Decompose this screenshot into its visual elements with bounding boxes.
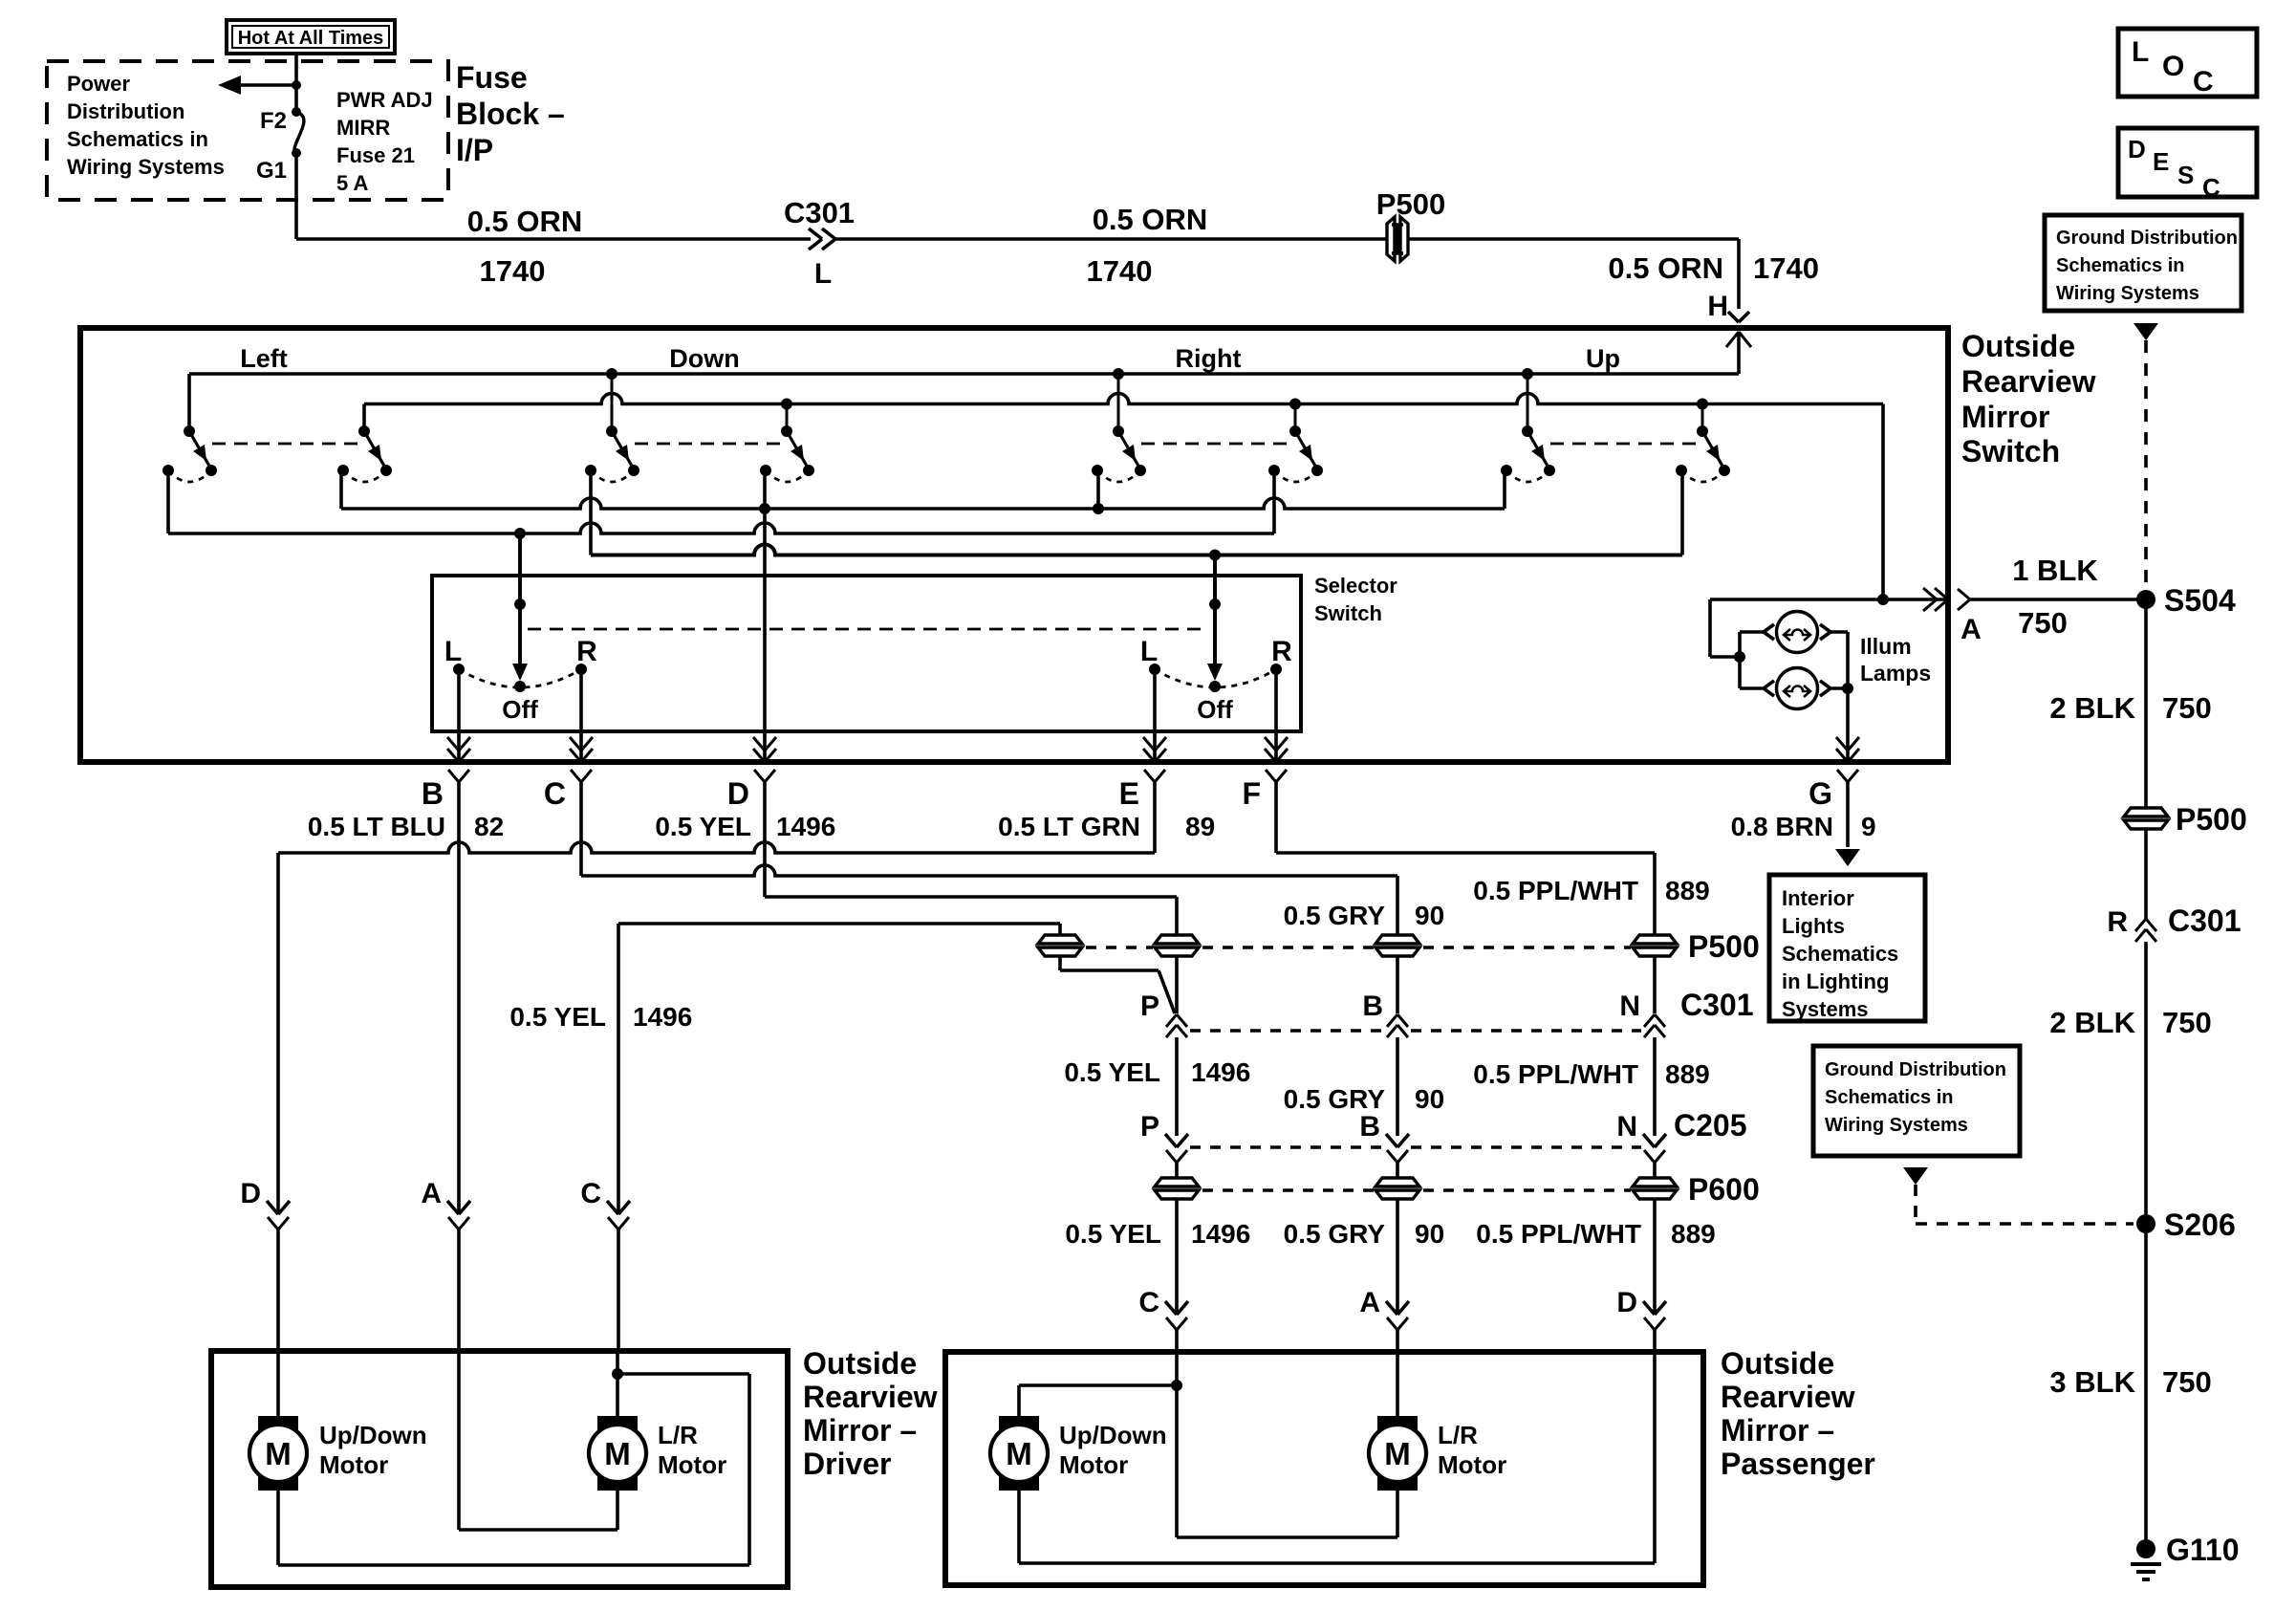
svg-text:82: 82 (474, 812, 504, 841)
wire up/down motor return to pin D (1019, 1352, 1655, 1563)
text Fuse Block - I/P (456, 60, 565, 167)
svg-text:G110: G110 (2166, 1533, 2240, 1567)
svg-text:Outside: Outside (1961, 329, 2075, 363)
svg-text:D: D (2128, 135, 2146, 163)
driver mirror pin C connector (607, 1201, 630, 1351)
wire pin C into passenger mirror (1175, 1352, 1179, 1385)
bus wire Left/Down/Right/Up top (189, 374, 1739, 431)
dashed connector line C301 (1190, 1029, 1641, 1033)
svg-text:Off: Off (502, 695, 538, 724)
wire 0.5 YEL branch to driver mirror (618, 924, 1060, 1214)
reference box Ground Distribution Schematics in Wiring Systems (2045, 215, 2242, 311)
wire 0.5 PPL/WHT 889 to C205 (1653, 1037, 1657, 1136)
driver mirror pin D connector (267, 1201, 290, 1351)
svg-text:P: P (1140, 1111, 1159, 1143)
node splice S206 (2136, 1214, 2155, 1233)
connector C301 pin P (1166, 1014, 1177, 1027)
component box Selector Switch (432, 576, 1301, 731)
illum lamp 2 (1740, 668, 1848, 709)
motor passenger L/R (1377, 1416, 1418, 1491)
wire branch to up/down motor (1019, 1385, 1177, 1417)
connector P500 grommet on ground rail (2124, 808, 2168, 816)
svg-text:Distribution: Distribution (67, 99, 184, 123)
svg-text:Mirror –: Mirror – (803, 1413, 917, 1448)
svg-text:Motor: Motor (1438, 1450, 1506, 1479)
node left selector pivot (514, 599, 526, 610)
wire pin D down (763, 782, 767, 897)
node B3 junction to right selector (1209, 550, 1221, 561)
text Outside Rearview Mirror Driver (803, 1346, 938, 1481)
motor driver L/R (597, 1416, 638, 1491)
wire Down1 contact to bus B3 (589, 470, 593, 555)
wire P500 to C301 pin B (1396, 957, 1399, 1013)
svg-text:A: A (1359, 1287, 1380, 1318)
svg-text:750: 750 (2162, 1365, 2212, 1399)
svg-text:Ground Distribution: Ground Distribution (1825, 1059, 2006, 1080)
wire 2 BLK 750 S504 to P500 (2144, 599, 2148, 808)
svg-text:Wiring Systems: Wiring Systems (2056, 283, 2199, 304)
svg-text:L: L (1140, 636, 1158, 667)
svg-text:in Lighting: in Lighting (1782, 969, 1889, 993)
svg-text:0.5 PPL/WHT: 0.5 PPL/WHT (1476, 1219, 1641, 1249)
svg-text:889: 889 (1665, 1059, 1710, 1089)
wire 0.5 ORN 1740 down to switch pin H (1737, 239, 1741, 309)
wire pin D to up/down motor (276, 1351, 280, 1417)
passenger mirror pin A connector (1386, 1301, 1409, 1352)
svg-text:A: A (1960, 614, 1982, 645)
svg-text:M: M (1384, 1436, 1411, 1471)
svg-text:Schematics: Schematics (1782, 942, 1898, 966)
svg-text:3 BLK: 3 BLK (2049, 1365, 2135, 1399)
svg-text:0.5 GRY: 0.5 GRY (1284, 901, 1386, 930)
svg-text:0.5 PPL/WHT: 0.5 PPL/WHT (1473, 876, 1638, 905)
svg-text:L/R: L/R (658, 1421, 698, 1449)
label 3 BLK 750 (2049, 1365, 2211, 1399)
svg-text:E: E (2153, 147, 2169, 176)
wire lamp return to pin G (1846, 632, 1850, 762)
label L/R Motor (658, 1421, 726, 1479)
component box Outside Rearview Mirror Driver (211, 1351, 788, 1587)
pin E exit arrows (1143, 749, 1155, 762)
svg-text:Wiring Systems: Wiring Systems (67, 155, 225, 179)
pin F exit arrows (1265, 749, 1276, 762)
svg-text:0.5 YEL: 0.5 YEL (509, 1002, 606, 1032)
switch Down 2 (760, 404, 814, 483)
wire pin D to 0.5 YEL column (765, 897, 1177, 934)
svg-text:0.5 LT BLU: 0.5 LT BLU (308, 812, 445, 841)
motor passenger up/down (999, 1416, 1039, 1491)
mechanical link selector (528, 628, 1208, 631)
triangle to interior lights box (1835, 849, 1860, 866)
label L/R Motor (1438, 1421, 1506, 1479)
svg-text:Right: Right (1176, 344, 1242, 373)
bus wire second row (364, 394, 1883, 600)
triangle ground distribution pointer 2 (1903, 1167, 1928, 1185)
wire to C301 (2144, 829, 2148, 919)
component box Outside Rearview Mirror Passenger (945, 1352, 1703, 1585)
wire selector L to pin E (1153, 669, 1157, 762)
svg-text:Outside: Outside (1721, 1346, 1834, 1381)
svg-text:D: D (727, 776, 749, 811)
arrow to Power Distribution Schematics (218, 76, 296, 95)
pin D exit arrows (753, 749, 765, 762)
svg-text:Passenger: Passenger (1721, 1447, 1875, 1481)
svg-text:1 BLK: 1 BLK (2012, 554, 2098, 587)
pin C exit arrows (570, 749, 581, 762)
svg-text:F2: F2 (260, 108, 287, 134)
right selector contact L (1149, 664, 1160, 675)
wire pin F down (1274, 782, 1278, 853)
right selector contact R (1270, 664, 1282, 675)
wire L/R motor to pin A (459, 1351, 617, 1530)
wire C205 to P600 col 2 (1396, 1163, 1399, 1178)
svg-text:L: L (814, 258, 832, 290)
connector C301 pin L on feed wire (809, 229, 835, 250)
svg-text:0.5 YEL: 0.5 YEL (655, 812, 751, 841)
svg-text:S504: S504 (2164, 583, 2236, 618)
wire Left1 contact to bus B2 (166, 470, 170, 533)
node lamp return junction (1842, 683, 1853, 694)
svg-text:N: N (1616, 1111, 1637, 1143)
connector fork pin A (1958, 589, 1970, 599)
svg-text:Driver: Driver (803, 1447, 892, 1481)
svg-text:R: R (576, 636, 597, 667)
svg-text:G1: G1 (256, 158, 287, 184)
pin B exit arrows (447, 749, 459, 762)
svg-text:Ground Distribution: Ground Distribution (2056, 228, 2238, 249)
svg-text:P600: P600 (1688, 1172, 1760, 1207)
svg-text:B: B (1362, 991, 1383, 1022)
wire pin C down (579, 782, 583, 876)
motor driver up/down (258, 1416, 298, 1491)
switch Up 2 (1676, 404, 1730, 483)
connector C205 pin B (1386, 1134, 1409, 1163)
wire illum lamp feed (1710, 599, 1740, 688)
connector C205 pin N (1643, 1134, 1666, 1163)
svg-text:M: M (1006, 1436, 1032, 1471)
wire selector R to pin F (1274, 669, 1278, 762)
wire Left2 contact to bus B1 (339, 470, 343, 509)
svg-text:Motor: Motor (319, 1450, 388, 1479)
svg-text:2 BLK: 2 BLK (2049, 691, 2135, 725)
node junction at F2 feed (292, 80, 301, 90)
wire Up2 contact to bus B3 (1680, 470, 1684, 555)
wire P500 to C301 pin N (1653, 957, 1657, 1013)
svg-text:E: E (1119, 776, 1139, 811)
dashed connector line C205 (1190, 1145, 1641, 1149)
svg-text:0.5 ORN: 0.5 ORN (1093, 203, 1208, 236)
svg-text:M: M (604, 1436, 631, 1471)
svg-text:89: 89 (1185, 812, 1215, 841)
svg-text:1740: 1740 (1087, 254, 1153, 288)
wire P500 to C301 driver branch (1060, 957, 1175, 1013)
connector P600 grommet row (1155, 1178, 1677, 1199)
svg-text:P500: P500 (2176, 802, 2247, 837)
ground G110 (2131, 1539, 2161, 1579)
wire up/down motor return loop (278, 1374, 749, 1565)
svg-text:C: C (2202, 173, 2220, 202)
node B2 junction to left selector (514, 528, 526, 539)
left selector contact R (575, 664, 587, 675)
wire Down2 contact through to pin D (763, 470, 767, 762)
wire 0.5 YEL 1496 to C205 (1175, 1037, 1179, 1136)
connector C301 pin N (1644, 1014, 1655, 1027)
switch Right 2 (1268, 404, 1323, 483)
svg-text:889: 889 (1665, 876, 1710, 905)
svg-text:Schematics in: Schematics in (2056, 255, 2185, 276)
wire C205 to P600 col 3 (1653, 1163, 1657, 1178)
svg-text:P500: P500 (1688, 929, 1760, 964)
svg-text:Power: Power (67, 72, 130, 96)
svg-text:Interior: Interior (1782, 886, 1854, 910)
switch Left 1 (162, 374, 217, 482)
bus wire B3 collector (591, 545, 1682, 555)
node bus2 junctions (781, 399, 1708, 410)
node B1 junctions (759, 503, 1104, 514)
wire selector L to pin B (457, 669, 461, 762)
svg-text:C301: C301 (2168, 903, 2242, 938)
svg-text:0.5 YEL: 0.5 YEL (1064, 1057, 1160, 1087)
svg-text:1740: 1740 (1753, 251, 1819, 285)
wire 0.5 GRY 90 to passenger pin A (1396, 1200, 1399, 1315)
svg-text:0.5 ORN: 0.5 ORN (467, 205, 583, 238)
component box Outside Rearview Mirror Switch (80, 328, 1948, 762)
wire 2 BLK 750 C301 to S206 (2144, 942, 2148, 1224)
svg-text:0.5 LT GRN: 0.5 LT GRN (998, 812, 1140, 841)
svg-text:Motor: Motor (1059, 1450, 1128, 1479)
pin G exit arrows (1836, 749, 1848, 762)
switch Right 1 (1092, 374, 1146, 482)
connector fork pin F (1266, 770, 1276, 782)
wire pin E down (1153, 782, 1157, 853)
right selector Off position (1155, 669, 1276, 692)
svg-text:L/R: L/R (1438, 1421, 1478, 1449)
wire pin B down (457, 782, 461, 1214)
label 2 BLK 750 (2049, 1006, 2211, 1039)
svg-text:5 A: 5 A (336, 171, 369, 195)
svg-text:Switch: Switch (1314, 601, 1382, 625)
svg-text:750: 750 (2018, 606, 2068, 640)
wire fuse output 0.5 ORN 1740 to C301 (296, 153, 811, 239)
passenger mirror pin D connector (1643, 1301, 1666, 1352)
svg-text:Illum: Illum (1860, 634, 1912, 659)
node junction from bus2 to pin A wire (1877, 594, 1889, 605)
svg-text:Schematics in: Schematics in (67, 127, 208, 151)
svg-text:Selector: Selector (1314, 574, 1397, 598)
svg-text:90: 90 (1415, 1219, 1444, 1249)
connector P500 grommet on feed wire (1386, 216, 1409, 262)
connector C301 pin R on ground rail (2135, 919, 2146, 931)
wire Right2 contact to bus B2 (1272, 470, 1276, 533)
svg-text:L: L (444, 636, 462, 667)
text Selector Switch (1314, 574, 1397, 625)
svg-text:B: B (422, 776, 444, 811)
wire 0.5 YEL 1496 to passenger pin C (1175, 1200, 1179, 1315)
svg-text:M: M (265, 1436, 292, 1471)
svg-text:B: B (1359, 1111, 1380, 1143)
svg-text:1496: 1496 (776, 812, 835, 841)
svg-text:H: H (1707, 291, 1728, 322)
triangle ground distribution pointer (2134, 323, 2158, 340)
connector P500 grommet row (1038, 935, 1677, 956)
mechanical link Down pair (635, 443, 787, 446)
svg-text:Fuse: Fuse (456, 60, 528, 95)
wire selector R to pin C (579, 669, 583, 762)
svg-text:1496: 1496 (1191, 1057, 1250, 1087)
left selector Off position (459, 669, 581, 692)
svg-text:Systems: Systems (1782, 997, 1869, 1021)
connector fork pin C (571, 770, 581, 782)
wire pin F to 0.5 PPL/WHT column (1276, 853, 1655, 934)
svg-text:Mirror –: Mirror – (1721, 1413, 1834, 1448)
svg-text:C205: C205 (1674, 1108, 1747, 1143)
text Outside Rearview Mirror Switch (1961, 329, 2096, 468)
connector fork pin G (1837, 770, 1848, 782)
svg-text:Lamps: Lamps (1860, 661, 1931, 686)
svg-text:D: D (240, 1178, 261, 1209)
wire pin C to L/R motor bottom (1177, 1385, 1397, 1537)
fuse F21 PWR ADJ MIRR 5A (292, 107, 304, 158)
reference box Ground Distribution Schematics in Wiring Systems 2 (1813, 1046, 2020, 1156)
node right selector pivot (1209, 599, 1221, 610)
svg-text:O: O (2162, 51, 2184, 82)
svg-text:Left: Left (240, 344, 288, 373)
svg-text:C301: C301 (1680, 988, 1754, 1022)
label box Hot At All Times (227, 20, 395, 54)
wire pin H entry arrow to bus (1726, 332, 1751, 374)
connector C205 pin P (1165, 1134, 1188, 1163)
connector fork at pin H (1728, 312, 1749, 322)
reference box LOC (2118, 29, 2257, 98)
svg-text:Up: Up (1586, 344, 1620, 373)
fuse block dashed box (47, 61, 448, 200)
svg-text:9: 9 (1861, 812, 1876, 841)
svg-text:D: D (1616, 1287, 1637, 1318)
wire right selector feed (1207, 555, 1223, 682)
pin A exit arrows (1935, 588, 1948, 599)
svg-text:Up/Down: Up/Down (319, 1421, 427, 1449)
label 2 BLK 750 (2049, 691, 2211, 725)
svg-text:C: C (544, 776, 566, 811)
left selector contact L (453, 664, 465, 675)
svg-text:1496: 1496 (633, 1002, 692, 1032)
svg-text:2 BLK: 2 BLK (2049, 1006, 2135, 1039)
reference box DESC (2118, 128, 2257, 202)
wire 1 BLK 750 to S504 (1970, 598, 2137, 601)
svg-text:Up/Down: Up/Down (1059, 1421, 1167, 1449)
mechanical link Up pair (1550, 443, 1702, 446)
svg-text:90: 90 (1415, 901, 1444, 930)
svg-text:R: R (1271, 636, 1292, 667)
wire 3 BLK 750 S206 to G110 (2144, 1224, 2148, 1549)
driver mirror pin A connector (447, 1201, 470, 1351)
svg-text:S: S (2177, 161, 2194, 189)
svg-text:R: R (2107, 906, 2128, 938)
node splice S504 (2136, 590, 2155, 609)
label Up/Down Motor (319, 1421, 427, 1479)
svg-text:Off: Off (1197, 695, 1233, 724)
connector fork pin D (754, 770, 765, 782)
node junction pin C branch (1171, 1380, 1182, 1391)
connector fork pin B (448, 770, 459, 782)
wire C205 to P600 col 1 (1175, 1163, 1179, 1178)
wire pin C to 0.5 GRY column (581, 865, 1397, 934)
connector C301 pin B (1387, 1014, 1397, 1027)
bus wire B1 collector (341, 498, 1505, 509)
mechanical link Right pair (1141, 443, 1295, 446)
svg-text:Hot At All Times: Hot At All Times (238, 28, 384, 49)
svg-text:C: C (580, 1178, 601, 1209)
node lamp bracket junction (1734, 651, 1745, 663)
wire 0.5 GRY 90 to C205 (1396, 1037, 1399, 1136)
svg-text:0.5 GRY: 0.5 GRY (1284, 1084, 1386, 1114)
svg-text:0.5 ORN: 0.5 ORN (1608, 251, 1723, 285)
wire P500 to C301 pin P (1175, 957, 1179, 1013)
svg-text:F: F (1242, 776, 1261, 811)
wire pin G down (1846, 782, 1850, 847)
connector fork pin E (1144, 770, 1155, 782)
svg-text:Mirror: Mirror (1961, 400, 2049, 434)
label Up/Down Motor (1059, 1421, 1167, 1479)
svg-text:750: 750 (2162, 691, 2212, 725)
wire pin C to L/R motor (616, 1351, 619, 1417)
switch Up 1 (1501, 374, 1555, 482)
svg-text:C: C (1138, 1287, 1159, 1318)
svg-text:C: C (2193, 66, 2214, 98)
wire from Hot At All Times to fuse (294, 54, 298, 112)
svg-text:Block –: Block – (456, 97, 565, 131)
svg-text:Outside: Outside (803, 1346, 917, 1381)
passenger mirror pin C connector (1165, 1301, 1188, 1352)
text Power Distribution Schematics in Wiring Systems (67, 72, 225, 179)
svg-text:0.8 BRN: 0.8 BRN (1731, 812, 1833, 841)
svg-text:G: G (1809, 776, 1832, 811)
svg-text:N: N (1619, 991, 1640, 1022)
bus wire B2 collector (168, 523, 1274, 533)
text Outside Rearview Mirror Passenger (1721, 1346, 1875, 1481)
svg-text:P: P (1140, 991, 1159, 1022)
svg-text:Schematics in: Schematics in (1825, 1087, 1954, 1108)
svg-text:I/P: I/P (456, 133, 493, 167)
svg-text:Switch: Switch (1961, 434, 2060, 468)
illum lamp 1 (1740, 612, 1848, 653)
wire 0.5 PPL/WHT 889 to passenger pin D (1653, 1200, 1657, 1315)
svg-text:0.5 YEL: 0.5 YEL (1065, 1219, 1161, 1249)
svg-text:Rearview: Rearview (1721, 1380, 1855, 1414)
svg-text:90: 90 (1415, 1084, 1444, 1114)
switch Down 1 (585, 374, 639, 482)
svg-text:MIRR: MIRR (336, 116, 390, 140)
reference box Interior Lights Schematics in Lighting Systems (1769, 875, 1925, 1021)
wire lamps to pin A internal (1710, 598, 1948, 601)
switch Left 2 (337, 404, 392, 483)
svg-text:Fuse 21: Fuse 21 (336, 143, 415, 167)
svg-text:Lights: Lights (1782, 914, 1845, 938)
svg-text:A: A (421, 1178, 442, 1209)
svg-text:Down: Down (669, 344, 740, 373)
text PWR ADJ MIRR Fuse 21 5 A (336, 88, 433, 195)
label Illum Lamps (1860, 634, 1931, 686)
svg-text:1496: 1496 (1191, 1219, 1250, 1249)
svg-text:1740: 1740 (480, 254, 546, 288)
svg-text:C301: C301 (784, 196, 855, 229)
svg-text:750: 750 (2162, 1006, 2212, 1039)
svg-text:Rearview: Rearview (803, 1380, 938, 1414)
svg-text:P500: P500 (1376, 187, 1445, 221)
svg-text:L: L (2132, 36, 2149, 68)
dashed wire to S504 (2144, 340, 2148, 591)
dashed wire to S206 (1916, 1185, 2134, 1224)
